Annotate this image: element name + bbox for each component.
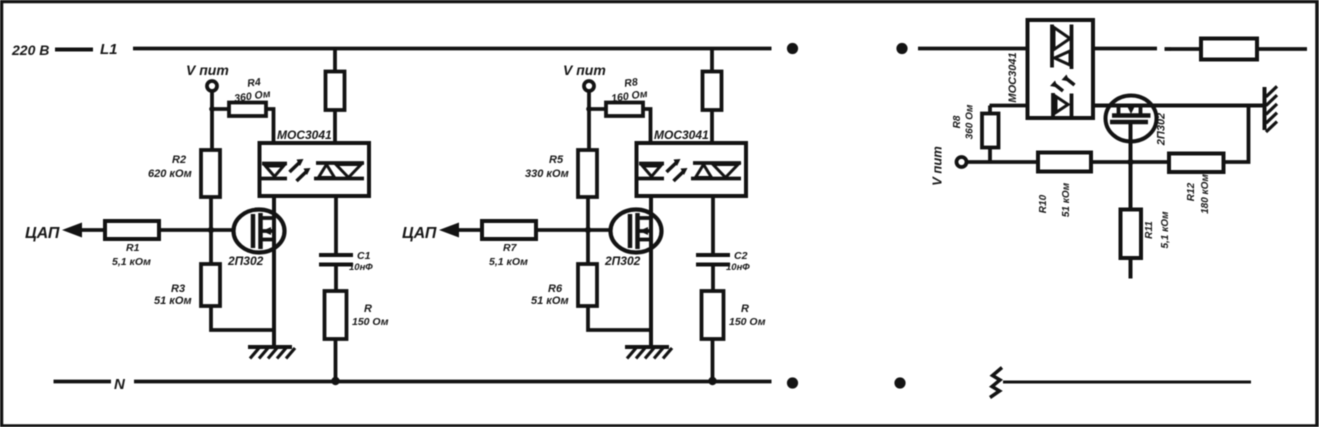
svg-text:5,1 кОм: 5,1 кОм <box>112 256 151 268</box>
svg-text:220 В: 220 В <box>11 42 49 58</box>
svg-text:R12: R12 <box>1186 182 1197 201</box>
svg-text:R10: R10 <box>1038 194 1049 213</box>
svg-text:ЦАП: ЦАП <box>25 225 60 242</box>
svg-text:R2: R2 <box>172 154 186 166</box>
svg-text:V пит: V пит <box>930 146 945 186</box>
svg-text:R: R <box>364 303 372 315</box>
svg-text:C1: C1 <box>357 250 371 262</box>
svg-text:2П302: 2П302 <box>1156 113 1168 146</box>
svg-text:10нФ: 10нФ <box>726 262 750 273</box>
svg-text:R1: R1 <box>126 242 140 254</box>
svg-text:R6: R6 <box>548 283 563 295</box>
svg-text:51 кОм: 51 кОм <box>154 295 192 307</box>
svg-text:180 кОм: 180 кОм <box>1200 173 1211 213</box>
svg-text:620 кОм: 620 кОм <box>148 168 192 180</box>
svg-text:R7: R7 <box>503 242 518 254</box>
svg-text:2П302: 2П302 <box>604 254 641 268</box>
svg-text:R: R <box>741 303 749 315</box>
svg-text:5,1 кОм: 5,1 кОм <box>489 256 528 268</box>
svg-text:МОС3041: МОС3041 <box>654 128 709 142</box>
svg-text:330 кОм: 330 кОм <box>525 168 569 180</box>
svg-text:2П302: 2П302 <box>227 254 264 268</box>
svg-text:V пит: V пит <box>563 62 606 78</box>
svg-text:R11: R11 <box>1144 221 1155 239</box>
svg-text:R4: R4 <box>247 76 262 90</box>
svg-text:51 кОм: 51 кОм <box>531 295 569 307</box>
svg-text:150 Ом: 150 Ом <box>352 316 389 328</box>
svg-text:V пит: V пит <box>186 62 229 78</box>
svg-text:МОС3041: МОС3041 <box>277 128 332 142</box>
svg-text:R8: R8 <box>624 76 639 90</box>
svg-text:R8: R8 <box>952 115 963 128</box>
svg-text:51 кОм: 51 кОм <box>1061 182 1072 217</box>
svg-text:R5: R5 <box>549 154 564 166</box>
svg-text:L1: L1 <box>100 41 118 58</box>
svg-text:C2: C2 <box>734 250 748 262</box>
svg-text:360 Ом: 360 Ом <box>965 104 976 139</box>
svg-text:10нФ: 10нФ <box>349 262 373 273</box>
svg-text:ЦАП: ЦАП <box>402 225 437 242</box>
svg-text:МОС3041: МОС3041 <box>1007 52 1019 102</box>
svg-text:N: N <box>114 376 126 393</box>
svg-text:5,1 кОм: 5,1 кОм <box>1160 211 1171 249</box>
svg-text:R3: R3 <box>171 283 185 295</box>
svg-text:150 Ом: 150 Ом <box>729 316 766 328</box>
